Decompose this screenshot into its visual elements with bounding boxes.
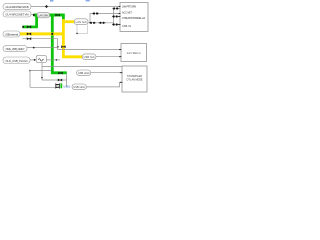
label J5 (pill) xyxy=(3,57,30,64)
wire: legend tie bus xyxy=(113,9,115,25)
node F (dot on J4 net) xyxy=(33,47,35,49)
wire: green elbow down to yellow cross xyxy=(62,14,65,20)
label J4 (pill) xyxy=(3,46,27,52)
wire: net from label J5 to filter xyxy=(30,59,36,61)
wire: net USB hub to matrix input 2 xyxy=(96,56,121,58)
svg-text:USB external: USB external xyxy=(5,33,18,37)
wire: tie x66.6 xyxy=(66,74,68,87)
connector X8 (bowtie pair on bottom net) xyxy=(55,83,59,86)
node T3 (blue tick top right) xyxy=(86,0,90,1)
label N1 (pill on green trunk) xyxy=(37,12,50,17)
node A (diamond on J1 net) xyxy=(45,5,48,8)
wire: thin net from green trunk to legend row2 xyxy=(90,13,120,15)
svg-text:USB2: USB2 xyxy=(63,85,71,89)
connector X1 (bowtie on green trunk) xyxy=(55,14,59,17)
receiver box U12 xyxy=(120,66,147,92)
connector U5 (circle-wing legend stub1) xyxy=(113,7,119,9)
label J1 (top-left pill) xyxy=(3,4,31,10)
connector X4 (bowtie on yellow vertical) xyxy=(61,45,65,48)
node G (dot on J5 net) xyxy=(34,59,36,61)
node C (junction on green start) xyxy=(33,14,35,16)
label N5 (bottom pill) xyxy=(72,84,86,90)
wire: legend stub 1 xyxy=(114,8,120,10)
svg-text:ONE_USB_GREY: ONE_USB_GREY xyxy=(6,47,25,51)
wire: green stub at bottom connector xyxy=(60,83,62,88)
connector X5 (bowtie on lower thin net) xyxy=(27,37,31,40)
connector U6 (circle-wing legend stub2) xyxy=(112,15,118,17)
matrix box U11 xyxy=(119,44,147,62)
node E (tick left of yellow vertical) xyxy=(57,46,59,48)
svg-text:USB stick: USB stick xyxy=(73,86,85,89)
svg-text:LAN PRT GRN: LAN PRT GRN xyxy=(122,5,136,8)
wire: bottom net to receiver in2 xyxy=(86,82,122,87)
wire: yellow run to USB hub xyxy=(62,55,82,58)
wire: thin net below yellow bus xyxy=(22,38,57,40)
svg-text:GU-4 ARCONET VM: GU-4 ARCONET VM xyxy=(6,13,30,17)
wire: net y80 with tie xyxy=(42,79,67,81)
wire: green trunk horizontal xyxy=(34,14,64,17)
wire: long net y66.5 xyxy=(42,66,122,68)
connector U3 (circle-wing on LAN net) xyxy=(89,22,95,24)
wire: green long vertical + bottom run xyxy=(51,16,67,73)
svg-text:GU-4 ARCONET IACB: GU-4 ARCONET IACB xyxy=(6,5,29,9)
label J2 (second pill) xyxy=(3,11,31,17)
wire: drop from filter xyxy=(41,63,43,80)
svg-text:USB-IN: USB-IN xyxy=(122,25,131,28)
node B (dot under LAN hub) xyxy=(76,33,78,35)
wire: thin net from LAN hub to legend xyxy=(88,22,114,24)
svg-text:USB hub: USB hub xyxy=(84,56,96,59)
connector X6 (bowtie on y80 net) xyxy=(58,79,62,82)
wire: net into green riser xyxy=(30,70,51,72)
connector X3 (bowtie on yellow bus) xyxy=(27,32,31,35)
legend box U10 xyxy=(119,3,148,32)
wire: stub from label J2 to green start xyxy=(31,13,34,16)
node H (dot on filter drop) xyxy=(41,77,43,79)
wire: left riser x30 xyxy=(29,71,31,88)
filter F1 (box with squiggle) xyxy=(36,56,46,63)
node C2 (dot at green branch end) xyxy=(22,26,24,28)
connector X7 (bowtie on green bottom run) xyxy=(58,72,62,75)
svg-text:OT LAN MODE: OT LAN MODE xyxy=(127,78,143,81)
connector U2 (circle-wing on row2 net) xyxy=(92,12,98,14)
svg-text:GUI Matrix: GUI Matrix xyxy=(127,52,142,55)
label J3 (USB external pill) xyxy=(3,31,20,37)
svg-text:OLD_USB_PLUG4: OLD_USB_PLUG4 xyxy=(6,59,29,63)
wire: green branch down-left xyxy=(22,16,38,27)
node E2 (tick on filter net at green crossing) xyxy=(56,59,58,61)
node T2 (blue tick top) xyxy=(50,0,53,2)
wire: net from filter to green crossing xyxy=(46,59,60,61)
wire: thin net from label J1 to legend row1 xyxy=(31,6,120,8)
wire: yellow vertical trunk xyxy=(62,19,65,57)
label N3 (USB hub pill) xyxy=(82,54,96,60)
label N2 (LAN hub pill) xyxy=(74,19,88,25)
svg-text:USB dock: USB dock xyxy=(78,72,90,75)
wire: light drop from LAN hub xyxy=(77,25,88,34)
wire: vertical tie x90 xyxy=(89,14,91,23)
wire: yellow stub to LAN hub xyxy=(63,20,74,23)
connector U4 (circle-wing on LAN net right) xyxy=(99,22,105,24)
node I (tick at riser top) xyxy=(29,70,31,72)
wire: net from USB dock to receiver in1 xyxy=(91,72,121,74)
connector U7 (circle-wing legend stub3) xyxy=(112,23,118,25)
wire: tie x57.6 down xyxy=(57,39,59,50)
wire: net to matrix input 1 xyxy=(58,49,121,51)
label N4 (USB dock pill) xyxy=(77,70,91,76)
wire: legend stub 3 xyxy=(114,24,120,26)
wire: bottom net left xyxy=(30,86,56,88)
svg-text:ACC NET: ACC NET xyxy=(122,11,133,14)
svg-text:LAN GRN: LAN GRN xyxy=(38,14,48,17)
wire: yellow bus horizontal xyxy=(20,32,63,35)
wire: net from label J4 xyxy=(27,47,58,49)
svg-text:LAN hub: LAN hub xyxy=(76,21,88,24)
wire: legend stub 2 xyxy=(114,16,120,18)
connector X2 (bowtie on green branch) xyxy=(27,25,31,28)
svg-text:CTRL/PATCHPANEL-A4: CTRL/PATCHPANEL-A4 xyxy=(122,17,146,20)
node D (green over yellow junction) xyxy=(51,33,53,35)
